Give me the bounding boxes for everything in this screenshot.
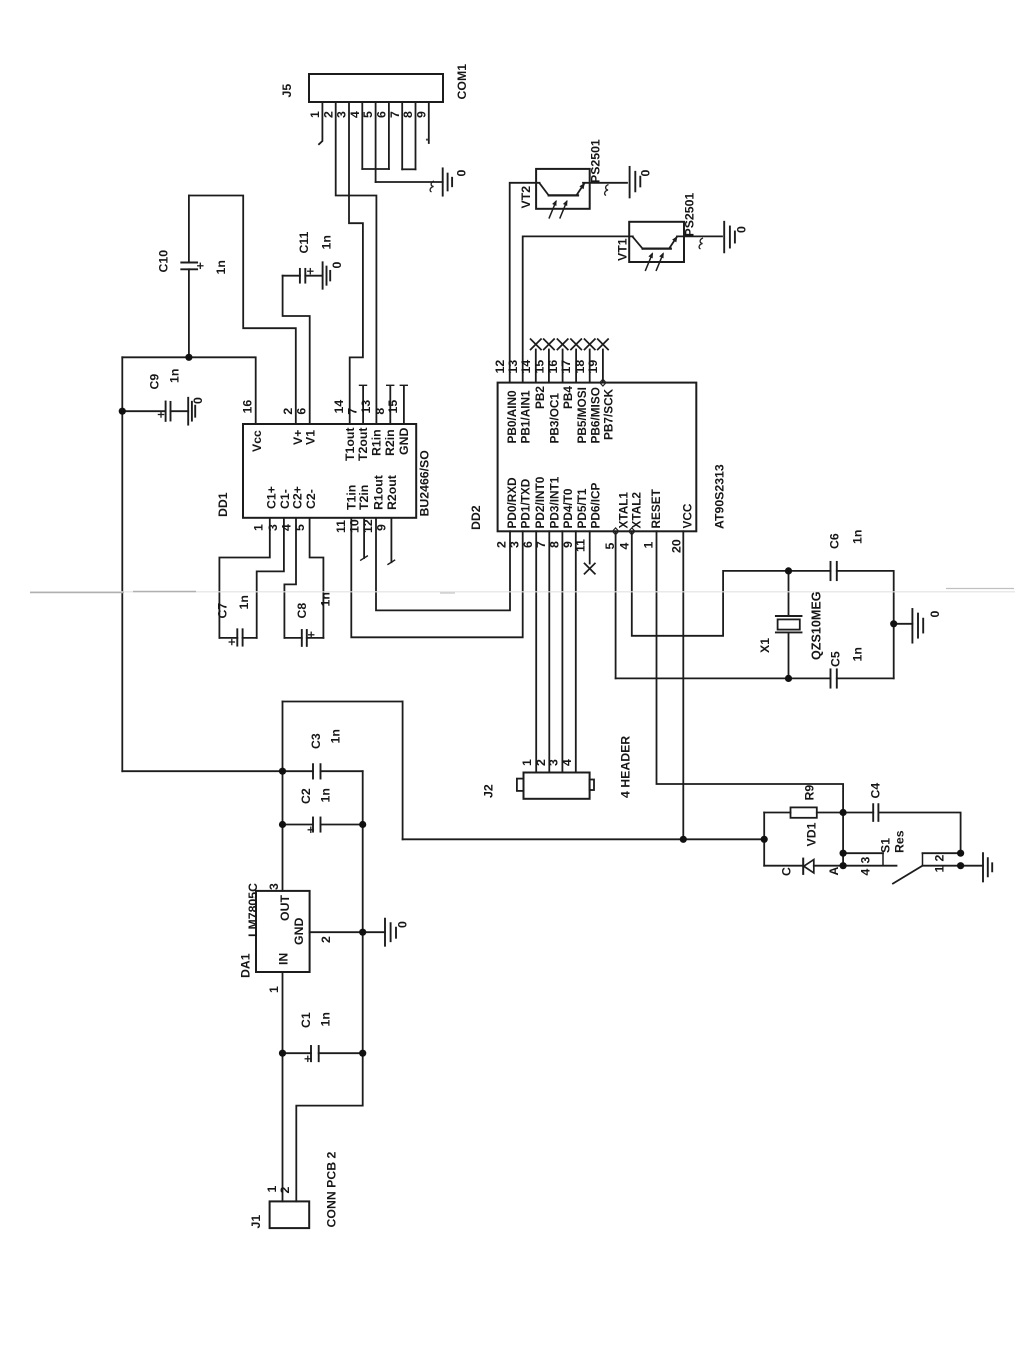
svg-text:11: 11 — [574, 539, 588, 552]
svg-text:RESET: RESET — [649, 488, 663, 528]
svg-text:C4: C4 — [869, 783, 883, 799]
svg-text:C2+: C2+ — [291, 486, 305, 509]
svg-text:1n: 1n — [237, 595, 251, 609]
svg-text:DD2: DD2 — [469, 505, 483, 530]
svg-text:C2: C2 — [299, 788, 313, 804]
svg-text:C9: C9 — [148, 374, 162, 390]
svg-text:10: 10 — [348, 519, 362, 533]
svg-text:R2in: R2in — [383, 429, 397, 456]
svg-text:5: 5 — [603, 543, 617, 550]
svg-text:CONN PCB 2: CONN PCB 2 — [325, 1151, 339, 1227]
svg-text:4: 4 — [560, 759, 574, 766]
svg-text:QZS10MEG: QZS10MEG — [810, 591, 824, 660]
svg-text:8: 8 — [548, 541, 562, 548]
svg-text:1n: 1n — [851, 530, 865, 544]
svg-text:1n: 1n — [214, 260, 228, 274]
svg-text:J5: J5 — [280, 84, 294, 98]
svg-text:16: 16 — [241, 400, 255, 414]
svg-text:4: 4 — [859, 869, 873, 876]
svg-text:1n: 1n — [168, 369, 182, 383]
svg-text:0: 0 — [330, 262, 344, 269]
svg-text:3: 3 — [859, 857, 873, 864]
svg-text:15: 15 — [532, 360, 546, 374]
svg-text:PD0/RXD: PD0/RXD — [505, 477, 519, 529]
svg-text:5: 5 — [361, 111, 375, 118]
svg-text:PB5/MOSI: PB5/MOSI — [575, 387, 589, 443]
svg-text:A: A — [827, 867, 841, 876]
svg-text:T2in: T2in — [357, 485, 371, 510]
svg-text:4: 4 — [280, 524, 294, 531]
svg-text:VT1: VT1 — [616, 238, 630, 261]
svg-text:12: 12 — [493, 360, 507, 374]
svg-text:20: 20 — [670, 539, 684, 553]
svg-text:0: 0 — [639, 170, 653, 177]
svg-text:XTAL1: XTAL1 — [617, 492, 631, 529]
svg-text:6: 6 — [295, 408, 309, 415]
svg-text:9: 9 — [375, 524, 389, 531]
svg-text:15: 15 — [386, 400, 400, 414]
svg-text:J2: J2 — [482, 784, 496, 798]
svg-text:DA1: DA1 — [239, 953, 253, 978]
svg-text:GND: GND — [397, 428, 411, 455]
svg-text:AT90S2313: AT90S2313 — [713, 464, 727, 529]
svg-text:C1+: C1+ — [265, 486, 279, 509]
svg-text:0: 0 — [928, 611, 942, 618]
svg-text:T1out: T1out — [343, 428, 357, 461]
svg-text:PD2/INT0: PD2/INT0 — [533, 476, 547, 528]
svg-text:7: 7 — [346, 408, 360, 415]
svg-text:6: 6 — [521, 541, 535, 548]
svg-text:VD1: VD1 — [805, 822, 819, 846]
svg-text:C6: C6 — [828, 533, 842, 549]
svg-text:1: 1 — [308, 111, 322, 118]
svg-text:14: 14 — [519, 360, 533, 374]
svg-text:1n: 1n — [319, 592, 333, 606]
svg-text:IN: IN — [277, 953, 291, 965]
svg-text:X1: X1 — [758, 638, 772, 653]
svg-text:Vcc: Vcc — [250, 430, 264, 452]
svg-text:12: 12 — [361, 519, 375, 533]
svg-text:C1: C1 — [299, 1012, 313, 1028]
svg-text:PD4/T0: PD4/T0 — [561, 488, 575, 528]
svg-text:C7: C7 — [216, 603, 230, 619]
svg-text:1: 1 — [933, 866, 947, 873]
svg-text:PB1/AIN1: PB1/AIN1 — [519, 390, 533, 444]
svg-text:14: 14 — [332, 400, 346, 414]
svg-text:PD1/TXD: PD1/TXD — [519, 478, 533, 528]
svg-text:PB4: PB4 — [561, 386, 575, 409]
svg-text:R2out: R2out — [385, 475, 399, 510]
svg-text:0: 0 — [455, 170, 469, 177]
svg-text:1n: 1n — [329, 729, 343, 743]
svg-text:V1: V1 — [304, 430, 318, 445]
svg-text:3: 3 — [267, 883, 281, 890]
svg-text:C2-: C2- — [304, 489, 318, 509]
svg-text:11: 11 — [334, 520, 348, 533]
svg-text:1n: 1n — [320, 235, 334, 249]
svg-text:2: 2 — [495, 541, 509, 548]
svg-text:6: 6 — [375, 111, 389, 118]
svg-text:C3: C3 — [309, 733, 323, 749]
svg-text:1: 1 — [520, 759, 534, 766]
svg-text:LM7805C: LM7805C — [246, 883, 260, 937]
svg-text:2: 2 — [278, 1187, 292, 1194]
svg-text:4 HEADER: 4 HEADER — [619, 736, 633, 798]
svg-text:PB2: PB2 — [533, 386, 547, 409]
svg-text:1n: 1n — [851, 647, 865, 661]
svg-text:0: 0 — [396, 921, 410, 928]
svg-text:PB3/OC1: PB3/OC1 — [548, 393, 562, 444]
svg-text:XTAL2: XTAL2 — [630, 492, 644, 529]
svg-text:PS2501: PS2501 — [589, 139, 603, 183]
svg-text:3: 3 — [547, 759, 561, 766]
svg-text:C: C — [780, 867, 794, 876]
svg-text:S1: S1 — [879, 838, 893, 853]
svg-text:VT2: VT2 — [519, 186, 533, 209]
svg-text:DD1: DD1 — [216, 492, 230, 517]
svg-text:C5: C5 — [829, 651, 843, 667]
svg-text:R9: R9 — [803, 785, 817, 801]
svg-text:C10: C10 — [157, 250, 171, 273]
svg-text:1: 1 — [267, 986, 281, 993]
svg-text:13: 13 — [506, 360, 520, 374]
svg-text:1n: 1n — [319, 788, 333, 802]
svg-text:7: 7 — [534, 541, 548, 548]
svg-text:4: 4 — [618, 543, 632, 550]
svg-text:7: 7 — [388, 111, 402, 118]
svg-text:J1: J1 — [249, 1215, 263, 1229]
svg-text:2: 2 — [933, 855, 947, 862]
svg-text:8: 8 — [401, 111, 415, 118]
svg-text:1: 1 — [252, 524, 266, 531]
svg-text:1: 1 — [265, 1186, 279, 1193]
svg-text:3: 3 — [508, 541, 522, 548]
svg-text:OUT: OUT — [278, 895, 292, 921]
svg-text:PD5/T1: PD5/T1 — [575, 488, 589, 528]
svg-text:13: 13 — [359, 400, 373, 414]
svg-text:0: 0 — [735, 226, 749, 233]
svg-text:3: 3 — [335, 111, 349, 118]
svg-text:4: 4 — [348, 111, 362, 118]
svg-text:8: 8 — [373, 408, 387, 415]
svg-text:3: 3 — [266, 524, 280, 531]
svg-text:PS2501: PS2501 — [683, 193, 697, 237]
svg-text:9: 9 — [414, 111, 428, 118]
svg-text:5: 5 — [293, 524, 307, 531]
svg-text:2: 2 — [321, 111, 335, 118]
svg-text:COM1: COM1 — [455, 64, 469, 100]
svg-text:1n: 1n — [319, 1012, 333, 1026]
svg-text:R1out: R1out — [372, 475, 386, 510]
svg-text:PB0/AIN0: PB0/AIN0 — [505, 390, 519, 444]
svg-text:R1in: R1in — [370, 429, 384, 456]
svg-text:2: 2 — [281, 408, 295, 415]
svg-text:C11: C11 — [297, 231, 311, 253]
svg-text:PD6/ICP: PD6/ICP — [589, 482, 603, 528]
svg-text:PD3/INT1: PD3/INT1 — [548, 476, 562, 528]
svg-text:Res: Res — [893, 830, 907, 853]
svg-text:T2out: T2out — [356, 428, 370, 461]
svg-text:16: 16 — [546, 360, 560, 374]
svg-text:19: 19 — [586, 360, 600, 374]
svg-text:C8: C8 — [295, 603, 309, 619]
svg-text:17: 17 — [559, 360, 573, 374]
svg-text:0: 0 — [191, 397, 205, 404]
svg-text:PB7/SCK: PB7/SCK — [602, 388, 616, 440]
svg-text:1: 1 — [642, 542, 656, 549]
svg-text:2: 2 — [319, 936, 333, 943]
svg-text:BU2466/SO: BU2466/SO — [418, 450, 432, 517]
svg-text:PB6/MISO: PB6/MISO — [589, 387, 603, 443]
svg-text:18: 18 — [573, 360, 587, 374]
svg-text:GND: GND — [292, 918, 306, 945]
svg-text:VCC: VCC — [681, 503, 695, 528]
